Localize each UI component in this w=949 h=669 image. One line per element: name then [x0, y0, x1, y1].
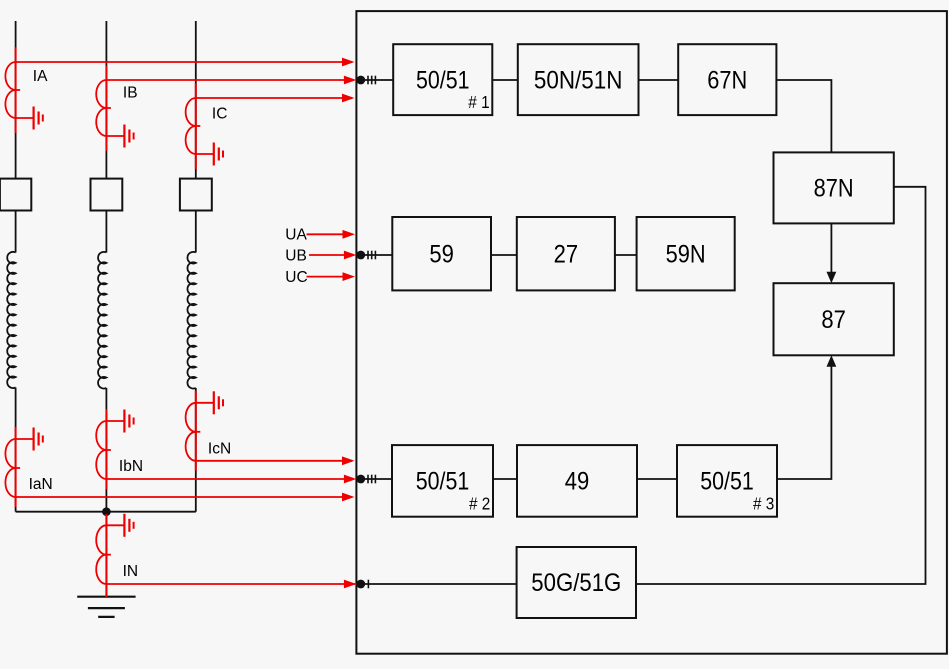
breaker square phase C — [180, 179, 212, 211]
wire CT IC secondary to relay — [196, 94, 355, 103]
wire 27 to 59N — [615, 254, 637, 256]
relay function block 50/51 #3 — [677, 445, 777, 517]
svg-text:IbN: IbN — [119, 458, 143, 475]
label UA — [285, 227, 307, 244]
wire CT IbN secondary to relay — [106, 475, 356, 484]
svg-text:IC: IC — [212, 106, 228, 123]
wire CT IcN secondary to relay — [196, 456, 355, 465]
wire CT IB secondary to relay — [106, 76, 356, 85]
svg-text:# 2: # 2 — [469, 494, 490, 514]
relay function block 50/51 #1 — [393, 44, 492, 115]
breaker square phase B — [91, 179, 123, 211]
winding L2 phase B — [98, 252, 106, 389]
single-conductor mark IN row — [367, 580, 369, 589]
CT IcN current transformer — [186, 403, 201, 461]
svg-text:59N: 59N — [666, 240, 706, 268]
svg-text:IB: IB — [123, 85, 138, 102]
relay function block 27 — [517, 217, 615, 290]
wire voltage input UB — [309, 251, 356, 260]
label IB — [123, 85, 138, 102]
node current input junction row3 — [356, 475, 365, 484]
CT IaN current transformer — [5, 439, 20, 497]
svg-text:50/51: 50/51 — [416, 66, 470, 94]
svg-text:# 1: # 1 — [468, 92, 489, 112]
CT IcN red primary overlay — [195, 391, 197, 471]
CT IA current transformer — [5, 62, 20, 118]
svg-text:27: 27 — [554, 240, 579, 268]
relay function block 59N — [637, 217, 735, 290]
relay function block 59 — [392, 217, 491, 290]
wire 50/51 #1 to 50N/51N — [492, 79, 518, 81]
CT IbN current transformer — [96, 421, 111, 479]
svg-text:87N: 87N — [814, 175, 854, 203]
wire neutral bus — [16, 511, 196, 513]
svg-text:IcN: IcN — [208, 441, 231, 458]
relay function block 50N/51N — [518, 44, 639, 115]
label IbN — [119, 458, 143, 475]
relay function block 50G/51G — [517, 547, 636, 618]
three-conductor marks row3 — [368, 475, 375, 484]
ground symbol CT IbN — [106, 410, 133, 433]
relay function block 87N — [774, 152, 894, 223]
wire CT IN secondary to relay — [106, 580, 356, 589]
CT IB red primary overlay — [105, 65, 107, 151]
wire junction to 59 — [356, 254, 392, 256]
wire 87N tap to 50G/51G line — [636, 187, 926, 584]
wire phase C conductor — [195, 21, 197, 512]
svg-text:UC: UC — [285, 269, 307, 286]
node current input junction row1 — [356, 76, 365, 85]
svg-text:# 3: # 3 — [753, 494, 774, 514]
wire 67N to 87N — [776, 80, 831, 152]
wire neutral to earth — [105, 512, 107, 597]
relay enclosure box — [356, 11, 947, 654]
wire phase A conductor — [15, 21, 17, 512]
svg-text:59: 59 — [429, 240, 454, 268]
CT IaN red primary overlay — [15, 427, 17, 507]
CT IN red primary overlay — [105, 514, 107, 597]
ground symbol CT IaN — [16, 428, 43, 451]
wire voltage input UC — [307, 272, 356, 281]
node ground current input junction — [356, 580, 365, 589]
winding L1 phase A — [7, 252, 15, 388]
CT IC current transformer — [186, 98, 201, 154]
wire junction to 50G/51G — [356, 583, 516, 585]
svg-text:50/51: 50/51 — [416, 468, 470, 496]
label IA — [33, 68, 48, 85]
wire 50/51 #2 to 49 — [493, 478, 517, 480]
label UB — [285, 247, 307, 264]
wire 87N to 87 with arrow — [827, 223, 837, 283]
svg-text:IN: IN — [123, 563, 139, 580]
CT IB current transformer — [96, 80, 111, 136]
CT IC red primary overlay — [195, 83, 197, 169]
wire junction row1 to 50/51 #1 — [356, 79, 393, 81]
wire CT IA secondary to relay — [16, 58, 355, 67]
label IC — [212, 106, 228, 123]
label UC — [285, 269, 307, 286]
svg-text:UA: UA — [285, 227, 307, 244]
wire 49 to 50/51 #3 — [637, 478, 677, 480]
wire CT IaN secondary to relay — [16, 493, 355, 502]
relay function block 67N — [678, 44, 776, 115]
wire junction to 50/51 #2 — [356, 478, 392, 480]
svg-text:UB: UB — [285, 247, 307, 264]
svg-text:67N: 67N — [707, 66, 747, 94]
wire 50/51 #3 to 87 with arrow — [777, 355, 836, 479]
breaker square phase A — [0, 179, 31, 211]
CT IN current transformer — [96, 525, 111, 584]
node neutral junction — [102, 507, 111, 516]
svg-text:50N/51N: 50N/51N — [534, 66, 623, 94]
CT IbN red primary overlay — [105, 409, 107, 489]
wire 59 to 27 — [491, 254, 517, 256]
wire phase B conductor — [105, 21, 107, 512]
relay function block 49 — [517, 445, 637, 517]
three-conductor marks row1 — [368, 76, 375, 85]
ground earth symbol — [77, 597, 135, 617]
svg-text:49: 49 — [565, 468, 590, 496]
ground symbol CT IB — [106, 125, 133, 148]
svg-text:50G/51G: 50G/51G — [531, 569, 621, 597]
wire 50N/51N to 67N — [639, 79, 679, 81]
ground symbol CT IcN — [196, 391, 223, 414]
label IaN — [29, 476, 53, 493]
ground symbol CT IC — [196, 143, 223, 166]
label IcN — [208, 441, 231, 458]
ground symbol CT IA — [16, 107, 43, 130]
ground symbol CT IN — [106, 514, 133, 537]
svg-text:50/51: 50/51 — [700, 468, 754, 496]
relay function block 87 — [774, 283, 894, 355]
svg-text:IaN: IaN — [29, 476, 53, 493]
svg-text:IA: IA — [33, 68, 48, 85]
CT IA red primary overlay — [15, 47, 17, 133]
winding L3 phase C — [187, 252, 195, 389]
wire voltage input UA — [307, 230, 356, 239]
label IN — [123, 563, 139, 580]
svg-text:87: 87 — [821, 306, 846, 334]
node voltage input junction — [356, 251, 365, 260]
three-conductor marks voltage row — [368, 251, 375, 260]
relay function block 50/51 #2 — [392, 445, 493, 517]
